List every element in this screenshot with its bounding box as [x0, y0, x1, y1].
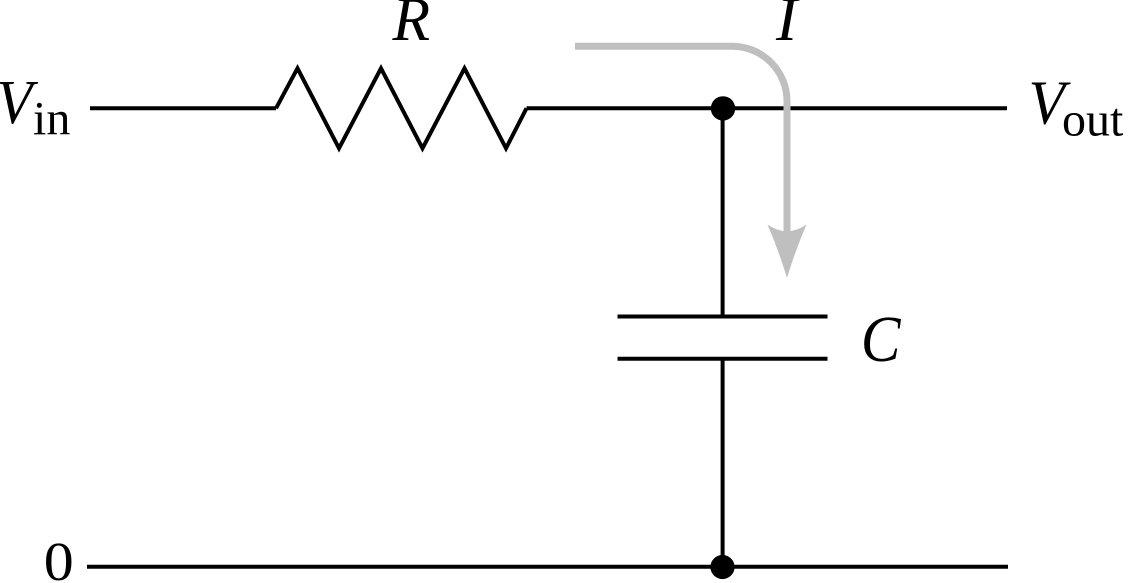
- current arrowhead: [768, 225, 807, 279]
- svg-text:0: 0: [44, 531, 74, 583]
- svg-text:R: R: [392, 0, 431, 54]
- svg-text:I: I: [775, 0, 801, 54]
- capacitor C top plate: [618, 315, 828, 319]
- resistor R: [276, 68, 527, 148]
- wire: resistor to Vout: [527, 106, 1008, 110]
- capacitor C bottom plate: [618, 357, 828, 361]
- wire: ground rail: [87, 565, 1008, 569]
- wire: node to capacitor: [721, 108, 725, 316]
- node junction bottom: [710, 555, 734, 579]
- wire: Vin lead to resistor: [90, 106, 276, 110]
- node junction top: [711, 96, 735, 120]
- svg-text:C: C: [861, 303, 901, 376]
- svg-text:in: in: [33, 93, 70, 146]
- current arrow I: [575, 46, 787, 240]
- wire: capacitor to ground rail: [721, 359, 725, 567]
- svg-text:out: out: [1062, 94, 1124, 147]
